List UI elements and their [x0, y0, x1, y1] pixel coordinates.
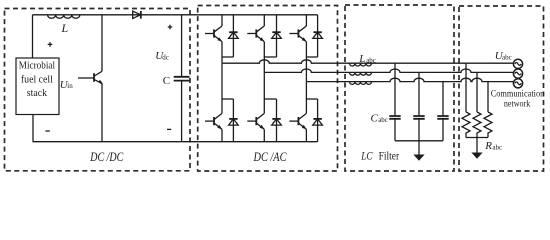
inverter leg 1 bottom diode [222, 99, 238, 142]
AC source circle c [513, 79, 522, 88]
inverter leg 2 bottom IGBT Q6 [247, 72, 264, 141]
filter inductor coil b [350, 72, 372, 75]
svg-text:in: in [67, 82, 73, 90]
inverter leg 3 top diode [306, 15, 322, 57]
inverter leg 3 bottom IGBT Q7 [289, 82, 306, 142]
svg-text:fuel cell: fuel cell [21, 74, 53, 85]
wire MFC box bottom to bottom rail [32, 115, 34, 142]
wire left vertical to MFC box top [32, 15, 34, 58]
svg-text:Microbial: Microbial [19, 60, 55, 71]
AC source circle b [513, 69, 522, 78]
svg-text:L: L [61, 21, 69, 35]
ground filter [418, 141, 420, 155]
AC source circle a [513, 59, 522, 68]
wire bottom rail DC link [33, 141, 318, 143]
svg-text:network: network [504, 100, 531, 110]
block DC/AC dashed border [198, 6, 338, 172]
wire phase c with hops [306, 78, 513, 81]
svg-text:DC /DC: DC /DC [90, 150, 124, 164]
svg-text:dc: dc [162, 53, 169, 61]
svg-text:Communication: Communication [491, 90, 545, 100]
inverter leg 3 top IGBT Q4 [289, 15, 306, 82]
svg-text:Filter: Filter [379, 149, 400, 163]
resistor Ra [462, 63, 470, 137]
minus sign dc link [167, 128, 171, 130]
svg-text:L: L [358, 53, 365, 65]
svg-text:C: C [163, 75, 170, 87]
resistor Rc [484, 82, 492, 138]
inverter leg 2 bottom diode [264, 99, 281, 142]
transistor Q1 boost switch [101, 15, 103, 142]
svg-text:abc: abc [378, 116, 388, 124]
capacitor Cb [418, 72, 420, 140]
resistor Rb [473, 72, 481, 137]
filter inductor coil a [350, 63, 372, 66]
svg-text:LC: LC [361, 149, 374, 163]
capacitor Cc [442, 82, 444, 141]
plus sign input [48, 42, 53, 47]
svg-text:R: R [484, 140, 492, 152]
Microbial fuel cell stack box [16, 58, 59, 115]
inductor L coil [48, 15, 80, 18]
capacitor Ca [394, 63, 396, 141]
svg-text:DC /AC: DC /AC [253, 150, 287, 164]
wire phase b with hops [264, 69, 513, 72]
svg-text:abc: abc [502, 54, 512, 62]
block Communication network dashed border [459, 6, 544, 171]
minus sign input [46, 130, 50, 132]
svg-text:abc: abc [492, 144, 502, 152]
block LC Filter dashed border [345, 5, 454, 171]
inverter leg 1 bottom IGBT Q5 [205, 63, 222, 142]
wire filter bottom rail [395, 140, 443, 142]
inverter leg 2 top IGBT Q3 [247, 15, 264, 73]
filter inductor coil c [350, 82, 372, 85]
ground load [476, 138, 478, 154]
diode D1 [133, 11, 141, 18]
svg-text:abc: abc [366, 56, 376, 64]
block DC/DC dashed border [5, 9, 191, 171]
inverter leg 2 top diode [264, 15, 281, 57]
wire phase a with hops [222, 60, 513, 63]
svg-text:stack: stack [27, 88, 48, 99]
inverter leg 1 top IGBT Q2 [205, 15, 222, 63]
wire top rail DC link [33, 14, 318, 16]
capacitor C dc link [181, 15, 183, 142]
plus sign dc link [168, 25, 172, 29]
inverter leg 1 top diode [222, 15, 238, 57]
inverter leg 3 bottom diode [306, 99, 322, 142]
wire load bottom rail [466, 137, 488, 139]
